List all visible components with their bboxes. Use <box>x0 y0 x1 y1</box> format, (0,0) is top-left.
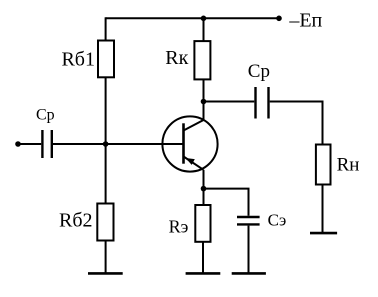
wire Rb1 bottom to base node to Rb2 top <box>105 77 107 203</box>
wire Cэ bottom to ground <box>248 226 250 274</box>
svg-text:Cэ: Cэ <box>268 211 287 230</box>
svg-text:Rб2: Rб2 <box>59 209 93 231</box>
capacitor Cр2 output coupling <box>256 87 269 119</box>
svg-text:Rб1: Rб1 <box>61 49 95 71</box>
collector output node <box>201 99 207 105</box>
wire Cр1 to base <box>53 143 184 145</box>
transistor VT1 body circle <box>162 116 217 171</box>
wire input terminal to capacitor Cр1 <box>18 143 41 145</box>
resistor Rн <box>316 145 331 185</box>
transistor VT1 emitter arrow <box>186 158 195 165</box>
wire Rb1 branch top segment <box>105 17 107 40</box>
base node junction <box>103 141 109 147</box>
wire Rэ bottom to ground <box>202 242 204 274</box>
wire top supply rail <box>106 17 279 19</box>
capacitor Cэ emitter bypass <box>237 217 260 224</box>
svg-text:Rэ: Rэ <box>169 217 189 237</box>
wire emitter node to Cэ branch <box>204 189 249 216</box>
svg-text:Cр: Cр <box>36 106 55 123</box>
transistor VT1 emitter diagonal <box>184 157 204 170</box>
wire Cр2 to Rн branch <box>270 102 323 145</box>
input terminal node <box>15 141 21 147</box>
transistor VT1 collector diagonal <box>184 120 204 131</box>
junction node at Rк and supply rail <box>201 15 207 21</box>
svg-text:Rн: Rн <box>337 154 360 175</box>
resistor Rб1 <box>98 41 114 78</box>
wire Rн bottom to ground <box>322 185 324 234</box>
wire Rb2 bottom to ground <box>105 241 107 274</box>
ground for Rб2 <box>88 272 123 275</box>
wire collector node to capacitor Cр2 <box>204 101 255 103</box>
ground for Cэ <box>232 272 266 275</box>
ground for Rн <box>310 232 337 235</box>
resistor Rэ <box>195 205 210 242</box>
emitter node junction <box>201 186 207 192</box>
wire Rк top to supply rail <box>203 18 205 41</box>
resistor Rб2 <box>97 204 113 241</box>
transistor VT1 base bar <box>182 123 185 163</box>
wire emitter lead down to Rэ <box>203 170 205 205</box>
wire collector lead up to Rк <box>203 79 205 120</box>
svg-text:Cр: Cр <box>248 61 270 82</box>
supply rail end node <box>276 15 282 21</box>
resistor Rк <box>194 41 210 79</box>
ground for Rэ <box>186 272 221 275</box>
svg-text:–Еп: –Еп <box>288 9 322 31</box>
svg-text:Rк: Rк <box>165 47 188 69</box>
capacitor Cр1 input coupling <box>42 130 51 158</box>
